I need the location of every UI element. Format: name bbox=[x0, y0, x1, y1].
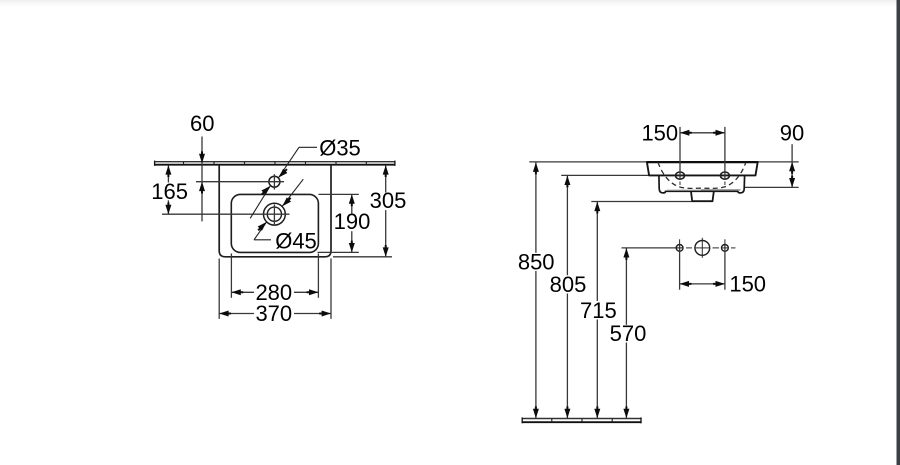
dim 305 bbox=[333, 256, 392, 258]
drain centre line / 165 reference bbox=[162, 213, 290, 215]
dim 850 bbox=[535, 163, 537, 253]
dim 190 bbox=[319, 193, 359, 195]
svg-text:370: 370 bbox=[255, 301, 292, 326]
dim 60 bbox=[201, 137, 203, 222]
mid bowl section with droop corners bbox=[659, 175, 745, 193]
basin rim bbox=[647, 162, 758, 175]
wall (top) double line with ticks bbox=[154, 161, 396, 166]
top gradient strip bbox=[0, 0, 900, 7]
svg-text:165: 165 bbox=[151, 179, 188, 204]
dia 35 leader bbox=[279, 147, 299, 177]
right dark bar bbox=[897, 0, 900, 465]
floor double line bbox=[522, 417, 642, 423]
svg-text:90: 90 bbox=[780, 120, 804, 145]
dim 165 bbox=[167, 165, 169, 182]
rim holes bbox=[676, 172, 685, 179]
svg-text:305: 305 bbox=[370, 188, 407, 213]
svg-text:150: 150 bbox=[641, 120, 678, 145]
faucet centre line / 60 reference bbox=[196, 181, 284, 183]
dim 150 bottom bbox=[680, 283, 725, 285]
svg-text:60: 60 bbox=[190, 111, 214, 136]
drain spigot bbox=[691, 192, 714, 202]
basin inner rounded rect bbox=[231, 194, 318, 252]
middle hole group bbox=[676, 245, 683, 252]
faucet hole bbox=[269, 176, 280, 187]
svg-text:150: 150 bbox=[729, 271, 766, 296]
basin outer rect bbox=[219, 165, 331, 257]
dim 90 bbox=[791, 144, 793, 187]
long reference lines bbox=[529, 161, 798, 163]
svg-text:190: 190 bbox=[334, 209, 371, 234]
left view texts bbox=[151, 111, 407, 326]
drain hole bbox=[264, 203, 286, 225]
dim 280 bbox=[230, 254, 232, 298]
svg-text:Ø35: Ø35 bbox=[319, 135, 361, 160]
dim 570 bbox=[625, 248, 627, 325]
vertical centrelines bbox=[679, 239, 681, 244]
dashed hole centrelines below rim holes bbox=[679, 182, 681, 188]
dim 370 bbox=[218, 259, 220, 319]
shadow above bowl bottom bbox=[667, 189, 701, 191]
dim 715 bbox=[596, 202, 598, 301]
right view texts bbox=[518, 120, 804, 346]
svg-text:570: 570 bbox=[610, 321, 647, 346]
dim 150 top bbox=[679, 127, 681, 179]
dash-dot horizontal centreline bbox=[686, 247, 736, 249]
svg-text:805: 805 bbox=[550, 272, 587, 297]
svg-text:Ø45: Ø45 bbox=[275, 228, 317, 253]
hidden bowl curve (dashed) bbox=[658, 162, 746, 188]
dia 45 leader bbox=[282, 179, 303, 206]
svg-text:715: 715 bbox=[580, 298, 617, 323]
dim 805 bbox=[566, 176, 568, 276]
svg-text:850: 850 bbox=[518, 249, 555, 274]
